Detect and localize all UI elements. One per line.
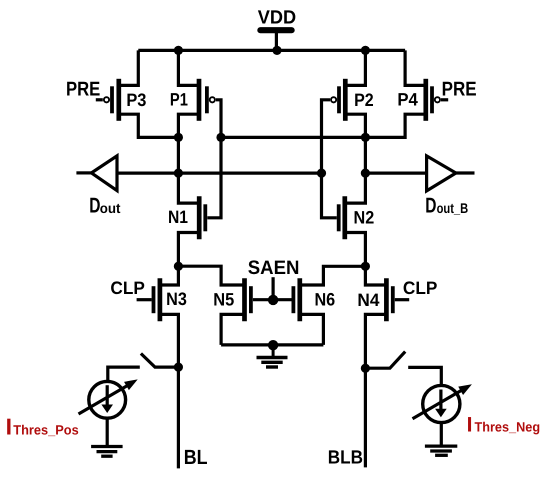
wire: N4 drain to row3 [365, 266, 386, 285]
svg-text:I: I [6, 413, 12, 439]
wire: P4 drain to rail [405, 50, 426, 85]
wire: switch S1 to current source I1 [108, 367, 140, 382]
wire: cross-couple line QB to P1/N1 gates [207, 100, 221, 218]
node: rail junction VDD [272, 46, 281, 55]
svg-text:N5: N5 [213, 289, 234, 309]
transistor N3 [154, 278, 187, 321]
svg-text:BL: BL [184, 446, 208, 469]
wire: row3 right to N6 drain [300, 266, 366, 285]
wire: P3 source to node Q (row1 left) [119, 114, 179, 137]
wire: P1 drain to rail [178, 50, 199, 85]
ground (I2) [425, 446, 457, 455]
node: rail junction P2 drain [361, 46, 370, 55]
svg-text:N1: N1 [168, 207, 188, 227]
svg-text:N2: N2 [354, 208, 375, 228]
svg-text:out: out [100, 200, 121, 216]
node: row1 junction P1/N1 gate line [216, 133, 225, 142]
svg-text:D: D [89, 193, 100, 217]
node: BL switch junction [174, 363, 183, 372]
wire: N3 drain to row3 [160, 266, 179, 285]
wire: I2 to ground [440, 423, 443, 445]
svg-text:I: I [467, 414, 473, 437]
wire: P1 source / node Q vertical to N1 drain [178, 114, 199, 203]
wire: SAEN lead [272, 277, 275, 300]
svg-text:P1: P1 [170, 89, 188, 109]
node: row2 junction Q [174, 168, 183, 177]
node: row2 junction P2/N2 gates [317, 168, 326, 177]
wire: N2 source to row3 [345, 233, 366, 267]
svg-text:N6: N6 [314, 290, 335, 310]
wire: N5 source to tail rail [221, 314, 244, 345]
node: row2 junction QB [361, 168, 370, 177]
wire: switch S2 to current source I2 [408, 367, 441, 385]
node: BLB switch junction [361, 364, 370, 373]
wire: node Q row2 (to Dout buffer and P2/N2 gate line) [117, 171, 322, 174]
transistor N2 [339, 196, 375, 239]
transistor P1 [170, 79, 215, 121]
current source I1 (adjustable, I_Thres_Pos) [79, 375, 141, 418]
wire: I1 to ground [106, 418, 109, 447]
ground (I1) [91, 447, 123, 457]
node: row3 junction left [174, 262, 183, 271]
wire: VDD supply rail [138, 49, 405, 52]
svg-text:CLP: CLP [110, 278, 144, 298]
svg-text:PRE: PRE [66, 79, 100, 101]
wire: tail ground rail [221, 343, 323, 346]
wire: N3 source to BL line [160, 314, 179, 468]
svg-text:N4: N4 [357, 290, 379, 310]
svg-text:P4: P4 [397, 89, 418, 109]
svg-text:PRE: PRE [442, 79, 477, 101]
wire: N5/N6 gate leads [253, 298, 292, 301]
node: row3 junction right [361, 262, 370, 271]
node: SAEN gate junction [268, 295, 278, 305]
wire: P2 drain to rail [345, 50, 365, 85]
svg-text:out_B: out_B [437, 200, 469, 216]
net label Dout [89, 193, 121, 217]
power symbol VDD [260, 30, 291, 50]
node: row1 junction P2/P4 sources [361, 133, 370, 142]
transistor N5 [213, 278, 251, 321]
switch S1 (left, open) [141, 354, 179, 368]
buffer U2 Dout_B [427, 156, 475, 191]
node: tail junction [268, 340, 278, 350]
transistor P2 [331, 79, 374, 121]
svg-text:BLB: BLB [328, 447, 363, 468]
wire: cross-couple line Q to P2/N2 gates [322, 100, 337, 218]
transistor P4 [397, 79, 440, 121]
svg-text:N3: N3 [166, 289, 187, 309]
wire: row3 left to N5 drain [178, 266, 244, 285]
net label I_Thres_Neg [467, 414, 540, 437]
transistor N6 [293, 278, 335, 321]
node: rail junction P1 drain [174, 46, 183, 55]
svg-text:P2: P2 [354, 90, 374, 110]
wire: P2 source / node QB vertical to N2 drain [345, 114, 366, 203]
wire: N1 source to row3 [178, 233, 199, 267]
wire: CLP lead to N3 gate [137, 298, 152, 301]
current source I2 (adjustable, I_Thres_Neg) [413, 380, 475, 422]
node: row1 junction P3/P1 sources [174, 133, 183, 142]
wire: N4 gate lead to CLP [395, 298, 409, 301]
transistor N4 [357, 278, 392, 321]
svg-text:Thres_Pos: Thres_Pos [13, 422, 78, 437]
svg-text:CLP: CLP [403, 278, 437, 298]
svg-text:D: D [425, 193, 436, 217]
wire: node QB row1 and P4 source [221, 114, 426, 137]
wire: P3 drain to rail [119, 50, 139, 85]
wire: P4 gate lead [441, 98, 448, 101]
switch S2 (right, open) [365, 352, 405, 369]
svg-text:P3: P3 [126, 90, 146, 110]
svg-text:VDD: VDD [258, 8, 296, 29]
wire: N4 source to BLB line [365, 314, 386, 467]
svg-text:Thres_Neg: Thres_Neg [475, 420, 541, 435]
wire: node QB row2 (to Dout_B buffer) [365, 171, 426, 174]
svg-text:SAEN: SAEN [248, 257, 300, 279]
ground (tail) [257, 345, 288, 367]
buffer U1 Dout [76, 156, 117, 191]
transistor N1 [168, 196, 205, 239]
transistor P3 [104, 79, 147, 121]
net label I_Thres_Pos [6, 413, 79, 439]
wire: PRE lead to P3 gate [96, 98, 103, 101]
wire: N6 source to tail rail [300, 314, 324, 345]
net label Dout_B [425, 193, 468, 217]
